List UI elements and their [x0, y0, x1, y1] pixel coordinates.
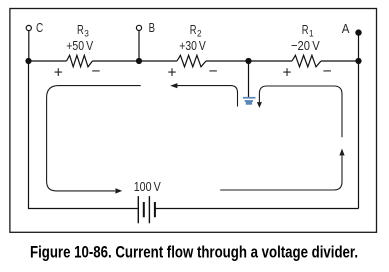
svg-text:+30 V: +30 V	[179, 38, 206, 53]
svg-text:−: −	[208, 63, 217, 80]
svg-text:R: R	[190, 22, 197, 37]
svg-text:+: +	[54, 64, 63, 81]
svg-text:R: R	[302, 22, 309, 37]
svg-text:−20 V: −20 V	[291, 38, 320, 53]
svg-text:A: A	[342, 21, 350, 36]
svg-text:C: C	[36, 20, 43, 35]
svg-text:+50 V: +50 V	[66, 38, 93, 53]
svg-text:−: −	[91, 63, 100, 80]
svg-text:Figure 10-86. Current flow thr: Figure 10-86. Current flow through a vol…	[30, 244, 358, 262]
svg-text:100 V: 100 V	[134, 180, 162, 194]
svg-text:−: −	[322, 63, 331, 80]
svg-text:+: +	[282, 64, 291, 81]
svg-text:B: B	[149, 20, 155, 35]
svg-text:+: +	[167, 64, 176, 81]
svg-text:R: R	[77, 22, 84, 37]
